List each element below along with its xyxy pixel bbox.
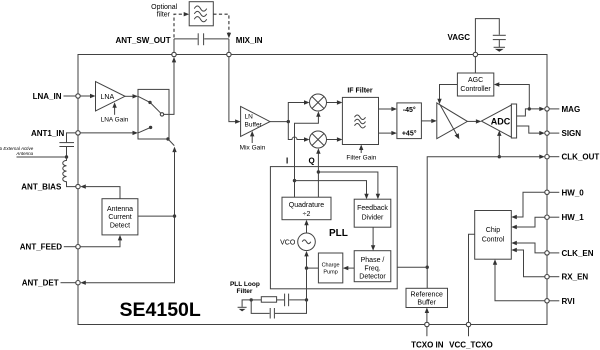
wire ADC MAG output bbox=[517, 107, 545, 116]
svg-text:Reference: Reference bbox=[411, 291, 443, 298]
wire ANT_DET stub bbox=[61, 282, 76, 284]
pin MAG right bbox=[545, 107, 549, 111]
label LNA Gain with arrow bbox=[101, 102, 129, 123]
wire antenna feed line bbox=[17, 155, 69, 158]
ground GND1 bbox=[494, 47, 505, 52]
op-amp VGA variable gain amp bbox=[437, 103, 468, 139]
wire switch pole to ANT_SW_OUT bbox=[164, 57, 176, 115]
wire LNA_IN stub bbox=[64, 95, 76, 97]
pin stub CLK_EN bbox=[549, 252, 559, 254]
wire dashed into optional filter bbox=[174, 12, 189, 38]
svg-text:LNA_IN: LNA_IN bbox=[33, 92, 62, 101]
wire VAGC decoupling net bbox=[475, 19, 499, 53]
svg-text:PLL Loop: PLL Loop bbox=[230, 281, 260, 288]
svg-text:Control: Control bbox=[482, 237, 505, 244]
wire ANT_SW_OUT pin to capacitor bbox=[173, 39, 175, 52]
svg-text:VAGC: VAGC bbox=[447, 33, 470, 42]
block AGC Controller bbox=[457, 73, 493, 96]
capacitor C2 parallel branch bbox=[251, 300, 306, 319]
svg-text:-45°: -45° bbox=[403, 106, 416, 114]
svg-text:AGC: AGC bbox=[468, 77, 483, 84]
pin LNA_IN bbox=[76, 94, 80, 98]
pin stub HW_0 bbox=[549, 191, 559, 193]
svg-text:MAG: MAG bbox=[562, 105, 581, 114]
ADC converter U2 bbox=[481, 104, 516, 138]
wire MIX_IN pin to capacitor bbox=[228, 39, 230, 52]
svg-text:Detect: Detect bbox=[110, 222, 130, 229]
svg-text:Phase /: Phase / bbox=[361, 257, 385, 264]
svg-text:RX_EN: RX_EN bbox=[562, 273, 589, 282]
wire TCXO IN stub bbox=[426, 327, 428, 337]
wire VCO to quadrature divider bbox=[304, 220, 308, 233]
svg-text:LNA Gain: LNA Gain bbox=[101, 116, 129, 123]
block Feedback Divider bbox=[354, 199, 391, 227]
wire I line quadrature to top mixer bbox=[293, 111, 321, 197]
wire HW_0 to Chip Control bbox=[511, 192, 545, 219]
wire top mixer to IF filter bbox=[327, 100, 343, 104]
wire HW_1 to Chip Control bbox=[511, 217, 545, 229]
block Charge Pump bbox=[318, 253, 342, 283]
svg-text:PLL: PLL bbox=[329, 228, 348, 239]
mixer M2 bottom bbox=[310, 131, 327, 148]
capacitor C_ant bbox=[59, 143, 74, 157]
op-amp LN Buffer bbox=[241, 106, 270, 136]
wire ANT_FEED stub bbox=[64, 246, 76, 248]
switch blade top bbox=[150, 102, 161, 113]
wire split to bottom mixer with crossover hop bbox=[288, 122, 309, 142]
wire Q tap to feedback divider bbox=[318, 172, 380, 199]
wire dashed from optional filter to MIX_IN bbox=[213, 14, 231, 38]
svg-text:ANT1_IN: ANT1_IN bbox=[31, 129, 65, 138]
op-amp LNA bbox=[96, 82, 126, 112]
wire Antenna Current Detect output bbox=[138, 215, 175, 217]
optional filter label bbox=[151, 4, 178, 18]
svg-text:Chip: Chip bbox=[486, 227, 501, 234]
pin VCC_TCXO bottom bbox=[466, 322, 470, 326]
switch box S1 bbox=[138, 89, 169, 139]
PLL enclosure box bbox=[270, 167, 397, 289]
label To External Active Antenna bbox=[0, 146, 34, 156]
svg-text:Feedback: Feedback bbox=[357, 205, 388, 212]
inductor L1 bbox=[63, 157, 76, 187]
pin TCXO IN bottom bbox=[425, 322, 429, 326]
wire MAG feedback to AGC Controller bbox=[494, 82, 530, 109]
wire CLK_EN to Chip Control bbox=[511, 241, 545, 253]
svg-text:TCXO IN: TCXO IN bbox=[411, 340, 444, 349]
svg-text:Antenna: Antenna bbox=[15, 151, 33, 156]
svg-text:Freq.: Freq. bbox=[364, 265, 380, 272]
wire LNA_IN to LNA bbox=[80, 94, 95, 98]
capacitor C1 bbox=[277, 294, 309, 307]
svg-text:HW_0: HW_0 bbox=[562, 188, 585, 197]
filter block IF Filter bbox=[342, 97, 378, 144]
pin ANT1_IN bbox=[76, 131, 80, 135]
capacitor C_ext between ANT_SW_OUT and MIX_IN bbox=[174, 33, 229, 45]
pin HW_0 right bbox=[545, 190, 549, 194]
optional filter F1 bbox=[189, 2, 213, 26]
block Chip Control bbox=[475, 211, 512, 260]
wire Q line quadrature to bottom mixer bbox=[316, 148, 320, 197]
wire split to top mixer bbox=[288, 100, 309, 121]
svg-text:+45°: +45° bbox=[402, 130, 417, 138]
wire RX_EN to Chip Control bbox=[511, 248, 545, 277]
wire ADC clock bbox=[497, 130, 501, 158]
svg-text:RVI: RVI bbox=[562, 297, 575, 306]
block Quadrature divider bbox=[282, 197, 331, 220]
pin stub HW_1 bbox=[549, 216, 559, 218]
wire I tap to feedback divider bbox=[295, 181, 369, 200]
pin ANT_BIAS bbox=[76, 184, 80, 188]
node loop filter A with ground branch bbox=[242, 298, 253, 307]
wire switch to ANT_DET bbox=[80, 147, 176, 285]
label Filter Gain with arrow bbox=[346, 145, 376, 162]
svg-text:Divider: Divider bbox=[362, 215, 384, 222]
wire ANT1_IN branch to external cap bbox=[67, 133, 76, 142]
pin CLK_EN right bbox=[545, 251, 549, 255]
wire AGC Controller to VGA bbox=[437, 85, 457, 105]
svg-text:CLK_OUT: CLK_OUT bbox=[562, 153, 600, 162]
pin VAGC bbox=[473, 52, 477, 56]
svg-text:VCO: VCO bbox=[280, 240, 296, 247]
wire RVI to Chip Control bbox=[493, 259, 545, 301]
svg-text:HW_1: HW_1 bbox=[562, 213, 585, 222]
switch lower contact dot bbox=[166, 137, 169, 140]
wire VCC_TCXO net to Chip Control bbox=[469, 234, 475, 322]
wire IF filter to phase shifter top bbox=[379, 107, 397, 111]
pin CLK_OUT right bbox=[545, 155, 549, 159]
label PLL Loop Filter bbox=[230, 281, 260, 295]
wire VCC_TCXO stub bbox=[468, 327, 470, 337]
svg-text:SE4150L: SE4150L bbox=[120, 299, 201, 321]
pin RVI right bbox=[545, 299, 549, 303]
pin stub CLK_OUT bbox=[549, 156, 559, 158]
svg-text:filter: filter bbox=[157, 12, 171, 19]
wire Phase Freq Detector to Charge Pump bbox=[343, 266, 354, 270]
mixer M1 top bbox=[310, 94, 327, 111]
wire ADC SIGN output bbox=[517, 126, 545, 135]
svg-text:ANT_SW_OUT: ANT_SW_OUT bbox=[115, 36, 170, 45]
svg-text:Filter Gain: Filter Gain bbox=[346, 155, 376, 162]
wire VAGC pin to AGC controller bbox=[474, 57, 476, 73]
block Phase Freq Detector bbox=[354, 251, 391, 282]
block Reference Buffer bbox=[406, 288, 448, 307]
svg-text:LNA: LNA bbox=[101, 94, 115, 101]
pin ANT_FEED bbox=[76, 245, 80, 249]
svg-text:Antenna: Antenna bbox=[107, 206, 133, 213]
svg-text:VCC_TCXO: VCC_TCXO bbox=[449, 340, 493, 349]
pin RX_EN right bbox=[545, 275, 549, 279]
pin stub RX_EN bbox=[549, 276, 559, 278]
pin ANT_DET bbox=[76, 281, 80, 285]
svg-text:MIX_IN: MIX_IN bbox=[236, 36, 263, 45]
block Antenna Current Detect bbox=[102, 199, 138, 235]
svg-text:I: I bbox=[286, 157, 288, 166]
svg-text:Filter: Filter bbox=[237, 288, 253, 295]
pin stub RVI bbox=[549, 300, 559, 302]
svg-text:IF Filter: IF Filter bbox=[347, 88, 373, 95]
svg-text:LN: LN bbox=[245, 114, 254, 121]
svg-text:ANT_BIAS: ANT_BIAS bbox=[21, 183, 62, 192]
oscillator VCO bbox=[298, 233, 316, 251]
wire Feedback Divider to Phase Freq Detector bbox=[371, 227, 375, 251]
wire VGA to ADC bbox=[467, 119, 481, 123]
svg-text:Pump: Pump bbox=[323, 270, 337, 276]
svg-text:Mix Gain: Mix Gain bbox=[240, 144, 266, 151]
capacitor C_vagc bbox=[493, 35, 506, 47]
svg-text:Current: Current bbox=[108, 214, 131, 221]
wire IF filter to phase shifter bottom bbox=[379, 131, 397, 135]
svg-text:CLK_EN: CLK_EN bbox=[562, 249, 594, 258]
switch bottom contact bbox=[138, 126, 152, 133]
svg-text:Buffer: Buffer bbox=[245, 122, 263, 129]
pin stub MAG bbox=[549, 108, 559, 110]
svg-text:Quadrature: Quadrature bbox=[289, 202, 325, 209]
resistor R1 bbox=[251, 297, 276, 303]
svg-text:÷2: ÷2 bbox=[303, 211, 311, 218]
svg-text:SIGN: SIGN bbox=[562, 129, 582, 138]
wire TCXO IN to Reference Buffer bbox=[425, 308, 429, 323]
ground GND2 bbox=[238, 307, 247, 311]
wire LN Buffer output junction bbox=[270, 120, 290, 123]
wire phase shifter to VGA bbox=[421, 119, 436, 123]
chip outline SE4150L boundary bbox=[78, 55, 547, 325]
wire ANT_BIAS from Antenna Current Detect bbox=[80, 184, 120, 198]
svg-text:Detector: Detector bbox=[359, 274, 386, 281]
svg-text:ADC: ADC bbox=[491, 116, 511, 126]
pin SIGN right bbox=[545, 131, 549, 135]
pin MIX_IN bbox=[227, 52, 231, 56]
switch pole bbox=[160, 113, 163, 116]
block phase shifter -45/+45 bbox=[397, 103, 422, 139]
pin HW_1 right bbox=[545, 215, 549, 219]
wire bottom mixer to IF filter bbox=[327, 137, 343, 141]
svg-text:Charge: Charge bbox=[322, 263, 340, 269]
label Mix Gain with arrow bbox=[240, 131, 266, 152]
wire CLK_OUT net bbox=[426, 155, 545, 289]
pin ANT_SW_OUT bbox=[172, 52, 176, 56]
wire MIX_IN to LN Buffer bbox=[229, 57, 241, 124]
wire LNA to switch bbox=[125, 94, 138, 98]
svg-text:ANT_DET: ANT_DET bbox=[22, 279, 59, 288]
wire reference to Phase Freq Detector bbox=[391, 265, 427, 269]
wire ANT1_IN to switch bbox=[80, 131, 138, 135]
switch blade lower bbox=[168, 139, 174, 146]
pin stub SIGN bbox=[549, 132, 559, 134]
wire Charge Pump to VCO and loop filter bbox=[304, 251, 318, 300]
svg-text:Buffer: Buffer bbox=[417, 300, 436, 307]
svg-text:Controller: Controller bbox=[460, 86, 491, 93]
switch top contact bbox=[138, 96, 152, 104]
wire ANT_FEED to Antenna Current Detect bbox=[80, 235, 122, 247]
svg-text:Q: Q bbox=[309, 157, 315, 166]
svg-text:ANT_FEED: ANT_FEED bbox=[20, 243, 62, 252]
svg-text:Optional: Optional bbox=[151, 4, 178, 11]
